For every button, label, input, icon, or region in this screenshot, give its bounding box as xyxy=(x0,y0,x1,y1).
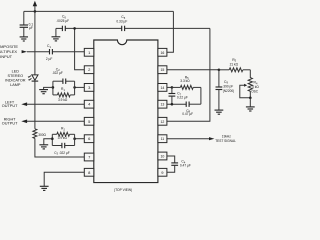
capacitor C9 390pF xyxy=(216,70,235,110)
ground G4 xyxy=(246,107,255,111)
svg-text:19kHz: 19kHz xyxy=(222,135,231,139)
pin 2 xyxy=(84,66,94,74)
supply arrow V+ xyxy=(33,1,37,12)
capacitor C5 0.33uF xyxy=(116,15,127,31)
pin 4 xyxy=(84,100,94,108)
wire R5 corner down xyxy=(200,87,202,104)
node pin13 xyxy=(171,103,174,106)
wire pin 10 to C4 xyxy=(167,156,175,163)
left output arrow xyxy=(21,102,27,106)
ground G1 xyxy=(20,37,28,41)
wire pin 11 test signal xyxy=(167,135,236,143)
svg-text:(TOP VIEW): (TOP VIEW) xyxy=(114,188,132,192)
svg-text:TEST SIGNAL: TEST SIGNAL xyxy=(215,139,236,143)
wire pin 3 to loop xyxy=(75,86,85,88)
resistor R2 3.9k xyxy=(52,127,74,140)
pin 6 xyxy=(84,135,94,143)
svg-text:.022 µF: .022 µF xyxy=(52,71,63,75)
resistor R5 3.3k xyxy=(172,75,201,89)
wire loop2 left edge xyxy=(51,134,53,145)
node loop1 left xyxy=(52,86,55,89)
wire loop2 right edge xyxy=(74,134,76,145)
svg-text:INDICATOR: INDICATOR xyxy=(5,78,26,82)
capacitor 0.1uF bypass xyxy=(20,11,34,36)
svg-text:21 kΩ: 21 kΩ xyxy=(230,62,239,66)
label LED STEREO INDICATOR LAMP xyxy=(5,70,26,87)
wire pin 8 to ground xyxy=(44,172,84,186)
node C6/pin2 junction xyxy=(73,27,76,30)
svg-text:0.47 µF: 0.47 µF xyxy=(180,164,191,168)
svg-text:INPUT: INPUT xyxy=(0,54,13,59)
svg-text:3.9 kΩ: 3.9 kΩ xyxy=(58,136,68,140)
svg-text:14: 14 xyxy=(160,86,164,90)
svg-text:(N2200): (N2200) xyxy=(223,89,235,93)
pin 7 xyxy=(84,153,94,161)
label RIGHT OUTPUT xyxy=(2,118,18,126)
wire pin 13 xyxy=(167,103,186,105)
svg-text:390 pF: 390 pF xyxy=(223,85,233,89)
capacitor C4 0.47uF xyxy=(171,160,191,168)
svg-text:13: 13 xyxy=(160,103,164,107)
svg-text:0.22 µF: 0.22 µF xyxy=(177,96,188,100)
node pin14 xyxy=(171,86,174,89)
right output arrow xyxy=(21,120,27,124)
resistor R1 3.9k xyxy=(53,87,75,102)
svg-text:OUTPUT: OUTPUT xyxy=(2,122,18,126)
wire pin 2 to top node xyxy=(75,28,85,69)
svg-text:12: 12 xyxy=(160,120,164,124)
capacitor C7 0.22uF xyxy=(169,87,188,104)
ground G3 xyxy=(215,110,224,114)
svg-text:16: 16 xyxy=(160,51,164,55)
wire pin 5 right output xyxy=(27,120,84,122)
resistor R3 21k xyxy=(219,58,250,72)
IC U1 (top view) xyxy=(94,40,158,192)
svg-text:STEREO: STEREO xyxy=(7,74,23,78)
wire pin 6 to loop xyxy=(75,138,85,140)
ground G5 xyxy=(39,90,48,94)
svg-text:300Ω: 300Ω xyxy=(38,133,46,137)
ground G6 xyxy=(39,145,48,149)
wire C6/C5 rail xyxy=(56,27,210,29)
svg-text:10: 10 xyxy=(160,154,164,158)
label COMPOSITE MULTIPLEX INPUT xyxy=(0,44,18,59)
wire loop2 to ground xyxy=(44,139,53,145)
pin 5 xyxy=(84,117,94,125)
pin 8 xyxy=(84,168,94,176)
wire rail down to pin 12 xyxy=(167,28,210,121)
wire pin 14 to node xyxy=(167,86,172,88)
capacitor C6 .0025uF xyxy=(56,15,69,32)
svg-text:OUTPUT: OUTPUT xyxy=(2,104,18,108)
LED stereo indicator lamp xyxy=(28,75,38,81)
svg-text:LAMP: LAMP xyxy=(10,83,21,87)
capacitor C3 .022uF xyxy=(52,143,74,156)
wire pin 16 to top rail xyxy=(167,11,174,52)
wire 300ohm to pin 7 xyxy=(35,138,85,157)
node loop1 right xyxy=(73,86,76,89)
svg-text:3.9 kΩ: 3.9 kΩ xyxy=(58,98,68,102)
pin 16 xyxy=(158,48,167,56)
svg-text:15: 15 xyxy=(160,68,164,72)
node R3/C9 xyxy=(218,69,221,72)
node loop2 right xyxy=(73,137,76,140)
wire loop1 right edge xyxy=(74,81,76,95)
svg-text:0.47 µF: 0.47 µF xyxy=(182,112,193,116)
wire LED to 300ohm resistor xyxy=(34,81,36,129)
pin 13 xyxy=(158,100,167,108)
pin 12 xyxy=(158,117,167,125)
svg-text:11: 11 xyxy=(161,137,165,141)
wire supply down to LED xyxy=(34,11,36,74)
capacitor C2 .022uF xyxy=(52,68,75,84)
svg-text:C3 .022 µF: C3 .022 µF xyxy=(54,151,70,156)
ground G7 xyxy=(40,186,49,190)
wire pin 4 left output xyxy=(27,103,84,105)
capacitor C1 2uF xyxy=(46,44,53,61)
svg-text:2 µF: 2 µF xyxy=(46,57,52,61)
wire pin 9 to C4 xyxy=(167,165,175,172)
ground G2 under C6 xyxy=(52,28,61,41)
pin 3 xyxy=(84,84,94,92)
svg-text:.0025 µF: .0025 µF xyxy=(56,19,69,23)
svg-text:0.33 µF: 0.33 µF xyxy=(116,19,127,23)
pin 1 xyxy=(84,48,94,56)
wire loop1 to ground xyxy=(44,87,53,89)
resistor 300 ohm xyxy=(33,129,47,139)
svg-text:LED: LED xyxy=(12,70,20,74)
input arrow xyxy=(22,50,27,53)
pin 10 xyxy=(158,152,167,160)
potentiometer R4 5k OSC xyxy=(240,70,260,107)
wire pin 15 to node xyxy=(167,69,219,71)
svg-text:µF: µF xyxy=(29,26,33,30)
node loop2 left xyxy=(51,137,54,140)
pin 9 xyxy=(158,168,167,176)
node supply junction xyxy=(34,10,37,13)
pin 14 xyxy=(158,84,167,92)
svg-text:OSC: OSC xyxy=(251,89,259,93)
capacitor C8 0.47uF xyxy=(182,102,201,116)
wire input to C1 xyxy=(27,51,50,53)
wire top rail xyxy=(24,10,174,12)
wire loop1 left edge xyxy=(52,81,54,95)
pin 15 xyxy=(158,66,167,74)
wire C1 to pin 1 xyxy=(52,51,84,53)
svg-text:3.3 kΩ: 3.3 kΩ xyxy=(180,79,190,83)
label LEFT OUTPUT xyxy=(2,100,18,108)
pin 11 xyxy=(158,135,167,143)
